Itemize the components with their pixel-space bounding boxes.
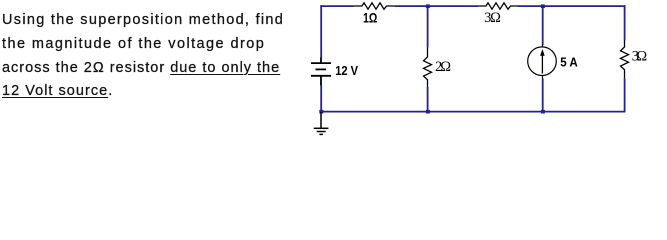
node: bottom junction at 2ohm branch <box>426 110 430 114</box>
node: top junction at 2ohm branch <box>426 4 430 8</box>
wire: top right segment <box>518 5 626 7</box>
wire: top middle segment <box>395 5 478 7</box>
svg-text:1Ω: 1Ω <box>363 10 377 25</box>
wire: left vertical (battery top lead) <box>320 5 322 58</box>
wire: left vertical (battery bottom lead) <box>320 86 322 113</box>
wire: right vertical bottom lead <box>624 78 626 112</box>
svg-text:3Ω: 3Ω <box>484 10 501 26</box>
wire: right vertical top lead <box>624 5 626 40</box>
ground <box>314 112 329 134</box>
wire: top left segment <box>320 5 353 7</box>
node: bottom junction at battery/ground <box>319 110 323 114</box>
svg-text:5 A: 5 A <box>560 54 578 69</box>
wire: bottom bus <box>320 111 625 113</box>
wire: current source branch top lead <box>542 6 544 45</box>
svg-text:3Ω: 3Ω <box>632 49 648 65</box>
node: top junction at current source branch <box>541 4 545 8</box>
svg-text:2Ω: 2Ω <box>435 59 451 75</box>
resistor R2 3ohm (top right, horizontal) <box>478 3 518 9</box>
wire: 2ohm branch top lead <box>427 6 429 48</box>
battery V1 12V <box>311 58 331 86</box>
resistor R1 1ohm (top left, horizontal) <box>354 3 396 9</box>
current source I1 5A (circle with up arrow) <box>528 45 557 79</box>
current source arrowhead <box>540 49 545 56</box>
node: bottom junction at current source branch <box>541 110 545 114</box>
resistor R3 2ohm (middle, vertical) <box>424 48 432 88</box>
svg-text:12 V: 12 V <box>335 63 358 78</box>
question text <box>2 9 332 104</box>
wire: 2ohm branch bottom lead <box>427 87 429 112</box>
resistor R4 3ohm (right, vertical) <box>621 41 629 79</box>
wire: current source branch bottom lead <box>542 79 544 112</box>
